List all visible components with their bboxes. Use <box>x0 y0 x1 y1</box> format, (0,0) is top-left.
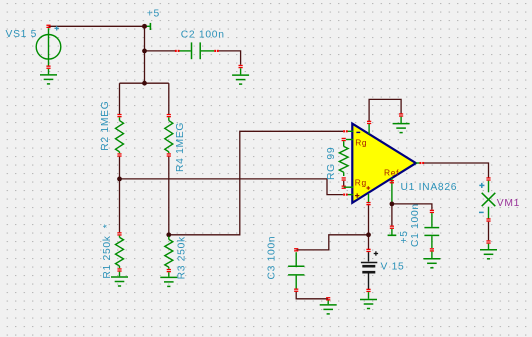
wire C2 left lead <box>145 50 176 52</box>
wire output to VM1 <box>424 163 489 178</box>
wire VM1 bottom <box>488 222 490 241</box>
op-amp pin output <box>416 162 420 164</box>
op-amp pin Rg bottom <box>344 186 353 188</box>
wire Ref node to +5 tag <box>391 204 393 226</box>
svg-text:C1 100n: C1 100n <box>410 203 421 247</box>
wire supply node to C3 <box>297 235 369 250</box>
resistor RG <box>342 138 346 139</box>
wire node A to +input <box>120 179 343 195</box>
wire R4 top <box>168 83 170 114</box>
svg-text:U1 INA826: U1 INA826 <box>401 182 458 193</box>
svg-text:RG 99: RG 99 <box>326 147 337 180</box>
wire node B to -input <box>169 131 343 235</box>
wire V+ pin down <box>368 205 370 235</box>
op-amp pin V+ bottom <box>368 194 370 203</box>
power tag +5 ref <box>390 226 394 227</box>
pin marker C3 ground wire <box>326 297 330 298</box>
battery V 15 <box>366 249 370 250</box>
node divider split <box>142 81 147 86</box>
wire RG bottom link <box>343 181 345 186</box>
capacitor C2 <box>175 50 177 52</box>
ground R3 <box>160 276 177 278</box>
ground VS1 <box>40 74 57 76</box>
ground C3 <box>320 304 337 306</box>
wire Ref node to C1 <box>392 204 432 210</box>
battery + sign <box>374 253 378 255</box>
svg-text:C2 100n: C2 100n <box>181 29 225 40</box>
node supply junction <box>366 232 371 237</box>
ground C1 <box>423 258 440 260</box>
op-amp U1 body <box>352 124 416 203</box>
op-amp minus symbol <box>356 131 360 133</box>
wire divider top split <box>120 82 169 84</box>
voltage source VS1 <box>46 25 50 26</box>
VM1 - sign <box>479 211 484 213</box>
node +5 junction <box>142 24 147 29</box>
pin marker supply ground <box>399 113 403 114</box>
svg-text:+5: +5 <box>147 9 160 20</box>
wire R4 bottom to node B <box>168 157 170 235</box>
svg-text:R1 250k *: R1 250k * <box>102 224 113 279</box>
op-amp pin Rg top <box>346 139 353 141</box>
wire C2 right to ground <box>219 51 241 65</box>
capacitor C1 <box>430 210 434 211</box>
svg-text:Rg: Rg <box>355 138 367 148</box>
wire R2 top <box>119 83 121 114</box>
resistor R1 <box>117 232 121 233</box>
svg-text:Rg: Rg <box>355 177 367 187</box>
resistor R2 <box>117 114 121 115</box>
wire R2 bottom to node A <box>119 157 121 179</box>
ground battery <box>360 299 377 301</box>
voltmeter VM1 <box>488 181 490 193</box>
op-amp pin + input <box>346 194 353 196</box>
wire V- pin to ground net <box>369 99 401 121</box>
pin marker C2 ground wire <box>239 65 243 66</box>
node C2 tap <box>142 49 147 54</box>
wire node A down to R1 <box>119 179 121 232</box>
svg-text:VS1 5: VS1 5 <box>6 29 38 40</box>
node B junction <box>166 232 171 237</box>
wire VS1 top to +5 node <box>49 25 145 27</box>
op-amp plus symbol <box>355 195 359 197</box>
op-amp pin Ref <box>391 178 393 204</box>
svg-text:C3 100n: C3 100n <box>267 236 278 280</box>
resistor R3 <box>168 237 170 240</box>
svg-text:V 15: V 15 <box>381 261 405 272</box>
svg-text:R4 1MEG: R4 1MEG <box>175 122 186 172</box>
pin marker VM1 top <box>486 177 490 178</box>
wire supply node to battery <box>368 235 370 250</box>
ground C2 <box>232 74 249 76</box>
polarity + VS1 <box>55 27 59 29</box>
svg-text:R3 250k: R3 250k <box>177 236 188 279</box>
svg-text:Ref: Ref <box>384 167 399 177</box>
ground R1 <box>111 276 128 278</box>
wire +5 rail vertical <box>144 26 146 83</box>
op-amp label Rg+ subscript <box>367 187 371 189</box>
wire C3 bottom to ground <box>296 291 328 299</box>
capacitor C3 <box>294 248 298 249</box>
VM1 + sign <box>479 184 484 186</box>
node A junction <box>117 177 122 182</box>
ground VM1 <box>480 249 497 251</box>
node Ref junction <box>390 202 395 207</box>
op-amp pin V- top <box>368 123 370 134</box>
svg-text:VM1: VM1 <box>497 198 520 209</box>
ground op-amp V- <box>393 123 410 125</box>
op-amp pin - input <box>346 130 353 132</box>
svg-text:R2 1MEG: R2 1MEG <box>100 101 111 151</box>
power tag +5 top <box>145 25 150 27</box>
resistor R4 <box>167 114 171 115</box>
svg-text:+5: +5 <box>399 230 410 243</box>
